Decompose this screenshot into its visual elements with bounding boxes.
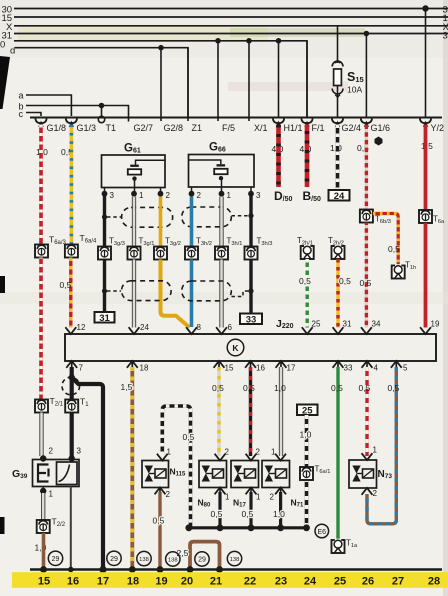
svg-text:0,5: 0,5 [243, 383, 255, 393]
wire red/yellow branch T6b/3 to T1h [373, 214, 398, 266]
connector T2/1 [35, 400, 48, 413]
svg-text:F/1: F/1 [312, 123, 325, 133]
svg-text:a: a [19, 91, 24, 101]
ground reference box 31 [95, 312, 115, 323]
wire G2/4 black/white 1.0 to box 24 [336, 125, 340, 191]
connector T6af [419, 210, 432, 223]
svg-text:17: 17 [97, 576, 109, 588]
svg-text:4: 4 [374, 364, 379, 373]
G39 pin 3 node [69, 455, 75, 461]
svg-text:0,5: 0,5 [211, 509, 223, 519]
svg-text:1: 1 [227, 191, 232, 200]
svg-text:Z1: Z1 [192, 123, 203, 133]
svg-text:18: 18 [140, 364, 149, 373]
rail node track16 [68, 567, 74, 573]
rail node track17 [99, 566, 106, 573]
left margin mark 3 [0, 517, 5, 534]
terminal H1/1 socket [273, 119, 284, 124]
harness junction dashed circle [62, 377, 80, 395]
N115 pin 1 arrow [157, 454, 168, 461]
connector T6a/4 [65, 245, 78, 258]
terminal G1/6 socket [361, 119, 372, 124]
svg-text:1: 1 [139, 191, 144, 200]
wire pin16 black/red to N17 pin2 [249, 367, 252, 456]
svg-text:2: 2 [225, 448, 230, 457]
screen stub dashed G61 lower [107, 290, 121, 292]
J220 pin 17 arrow [276, 361, 287, 368]
svg-text:1: 1 [271, 448, 276, 457]
bus node left [185, 524, 192, 531]
svg-text:10A: 10A [347, 85, 362, 95]
T1 open circle terminal [98, 116, 104, 122]
svg-text:E6: E6 [318, 529, 327, 536]
svg-text:1,0: 1,0 [274, 383, 286, 393]
svg-text:0,5: 0,5 [183, 432, 195, 442]
terminal G2/4 socket [332, 119, 343, 124]
wire black/white loop to N115 pin1 [162, 406, 190, 528]
svg-text:K: K [232, 343, 239, 353]
svg-text:F/5: F/5 [222, 123, 235, 133]
ground reference box 33 [240, 314, 262, 325]
injector N71 box [262, 461, 290, 488]
svg-text:0,5: 0,5 [153, 516, 165, 526]
svg-text:8: 8 [197, 323, 202, 332]
svg-text:3: 3 [256, 191, 261, 200]
interconnect line d [15, 48, 188, 118]
knock sensor G66 [189, 155, 255, 194]
N73 valve symbol [352, 466, 360, 474]
wire red/white T6a/3 to T2/1 [39, 258, 43, 400]
valve return bus wire [189, 526, 307, 529]
shield G66 upper (dashed) [182, 207, 232, 227]
svg-text:28: 28 [428, 576, 440, 588]
connector T6a/1 [300, 467, 313, 480]
svg-text:G2/4: G2/4 [342, 123, 362, 133]
svg-text:2,5: 2,5 [177, 548, 189, 558]
wire white T3g/1 to pin24 [133, 260, 136, 328]
svg-text:3: 3 [77, 447, 82, 456]
J220 pin 16 arrow [245, 361, 256, 368]
svg-text:27: 27 [392, 576, 404, 588]
G39 heater element symbol [38, 465, 49, 482]
wire black N17 to bus [249, 492, 252, 528]
svg-text:16: 16 [67, 576, 79, 588]
N17 pin 2 arrow top [246, 454, 257, 461]
svg-text:29: 29 [110, 556, 118, 563]
svg-text:G1/3: G1/3 [77, 123, 97, 133]
G66 pin stubs [191, 187, 193, 194]
valve N115 box [142, 461, 169, 488]
J220 pin 5 arrow [391, 361, 402, 368]
svg-text:0,5: 0,5 [388, 244, 400, 254]
G39 pin 1 node [42, 487, 44, 493]
svg-text:24: 24 [334, 191, 345, 202]
ground ref circle 29 track15 [48, 551, 62, 565]
terminal strip line [30, 117, 442, 119]
J220 pin 15 arrow [214, 361, 225, 368]
wire white T2/1 to G39 pin 2 [40, 413, 43, 457]
J220 pin 4 arrow [362, 361, 373, 368]
svg-text:2: 2 [270, 493, 275, 502]
wire drop G2/4 from bus X to fuse [337, 26, 339, 63]
G61 pin 1 node [131, 191, 137, 197]
svg-text:29: 29 [198, 557, 206, 564]
continuation reference box 24 [329, 190, 350, 201]
svg-text:16: 16 [256, 364, 265, 373]
node pin7 branch [69, 374, 75, 380]
svg-text:T1: T1 [106, 123, 117, 133]
svg-text:24: 24 [140, 323, 149, 332]
wire G61 pin2 yellow [159, 197, 163, 247]
J220 pin 7 arrow [66, 361, 77, 368]
svg-text:15: 15 [38, 576, 50, 588]
bottom rail line [30, 568, 442, 570]
svg-text:34: 34 [372, 320, 381, 329]
svg-text:X/1: X/1 [254, 123, 268, 133]
svg-text:2: 2 [256, 448, 261, 457]
svg-text:0,5: 0,5 [339, 276, 351, 286]
screen node G66 upper [248, 213, 253, 218]
N73 pin 1 arrow [362, 453, 373, 460]
ground ref circle 29 track20 [195, 552, 209, 566]
connector T6b/3 [360, 210, 373, 223]
J220 pin 6 arrow [216, 327, 227, 334]
wire pin33 green to T1a [336, 367, 339, 540]
wire drop X/1 from line o [246, 38, 252, 44]
svg-text:31: 31 [343, 320, 352, 329]
svg-text:0,5: 0,5 [359, 383, 371, 393]
J220 pin 24 arrow [129, 327, 140, 334]
bus node N71 [277, 524, 284, 531]
connector T6a/3 [35, 245, 48, 258]
wire red/yellow T6a/4 to J220 pin 12 [69, 258, 72, 328]
G66 pin 1 node [219, 191, 225, 197]
svg-text:7: 7 [79, 364, 84, 373]
wire F/1 red/black 4.0 to B/50 [305, 125, 310, 188]
svg-text:2: 2 [166, 490, 171, 499]
wire drop Z1 (corner of line d) [187, 48, 189, 121]
svg-text:21: 21 [210, 576, 222, 588]
wire G1/8 red/white 1.0 upper [39, 125, 43, 245]
connector T2/2 [37, 520, 50, 533]
svg-text:H1/1: H1/1 [284, 123, 303, 133]
N71 pin 1 arrow top [275, 454, 286, 461]
G66 pin 3 node [248, 191, 254, 197]
svg-text:20: 20 [181, 576, 193, 588]
lambda probe G39 box [33, 460, 80, 487]
wire G61 pin1 white [133, 197, 136, 247]
svg-text:22: 22 [244, 576, 256, 588]
fuse S15 [332, 61, 343, 118]
svg-text:138: 138 [168, 558, 178, 564]
svg-text:0,5: 0,5 [299, 276, 311, 286]
svg-text:G2/7: G2/7 [134, 123, 154, 133]
svg-text:1,5: 1,5 [121, 382, 133, 392]
wire drop Y/2 from bus 30 [422, 5, 428, 11]
svg-text:6: 6 [228, 323, 233, 332]
wire pin5 brown/blue to N73 pin2 [367, 367, 396, 524]
connector T2h/1 [301, 246, 314, 259]
brown hairpin track20-track21 [190, 542, 220, 570]
knock sensor G61 [102, 155, 166, 194]
bus node N17 [248, 524, 255, 531]
N115 valve symbol [145, 466, 154, 474]
svg-text:23: 23 [275, 576, 287, 588]
connector T2h/2 [332, 246, 345, 259]
J220 pin 18 arrow [127, 361, 138, 368]
svg-text:1,0: 1,0 [300, 430, 312, 440]
wire yellow T3g/2 elbow to pin8 [161, 260, 190, 328]
wire grey T3h/1 to pin6 [220, 260, 223, 328]
injector N17 box [231, 461, 259, 488]
wire pin17 white to N71 pin1 [280, 367, 283, 456]
wire pin4 red/white to N73 pin1 [365, 367, 368, 456]
wire red/grey T6b/3 to pin34 [365, 223, 368, 328]
wire black N80 to bus [218, 492, 221, 528]
wire drop G2/8 from line d [158, 45, 164, 51]
bus node right [303, 524, 310, 531]
wire G1/3 yellow/blue 0.5 [70, 125, 74, 245]
svg-text:0,5: 0,5 [242, 509, 254, 519]
svg-text:c: c [19, 109, 24, 119]
N71 pin 2 arrow bottom [275, 488, 286, 495]
svg-text:1: 1 [167, 448, 172, 457]
G61 pin 2 node [158, 191, 164, 197]
wire drop F/5 from line o [215, 38, 221, 44]
ground point E6 [315, 524, 329, 538]
svg-text:0,5: 0,5 [388, 383, 400, 393]
connector T3h/2 [185, 247, 198, 260]
svg-text:2: 2 [166, 191, 171, 200]
J220 pin 34 arrow [361, 327, 372, 334]
scan background tints [0, 0, 448, 58]
wire yellow/red T2h/2 to pin31 [336, 259, 339, 328]
terminal Y/2 socket [420, 119, 431, 124]
screen stub dashed G66 lower [232, 291, 249, 297]
svg-text:19: 19 [155, 576, 167, 588]
N115 pin 2 arrow [155, 488, 166, 495]
connector T3g/3 [98, 247, 111, 260]
wire black T1 to G39 pin 3 [70, 413, 74, 459]
rail node track15 [40, 566, 47, 573]
svg-text:138: 138 [139, 557, 149, 563]
G66 pin 2 node [189, 191, 195, 197]
track number bar [12, 572, 448, 588]
ground ref circle 138 track18 [137, 551, 151, 565]
screen stub dashed G61 upper [107, 216, 121, 218]
terminal F/1 socket [301, 119, 312, 124]
svg-text:19: 19 [431, 320, 440, 329]
wire drop F/1 (corner of line o) [306, 41, 308, 118]
connector T1h [392, 266, 405, 279]
svg-text:Y/2: Y/2 [431, 123, 445, 133]
svg-text:G1/6: G1/6 [371, 123, 391, 133]
wire H1/1 red/black 4.0 to D/50 [276, 125, 281, 188]
wire green/white T2h/1 to pin25 [306, 259, 309, 328]
svg-text:138: 138 [230, 557, 240, 563]
connector T3g/1 [128, 247, 141, 260]
screen stub dashed G66 upper [232, 215, 249, 217]
bus bar X [14, 25, 448, 27]
svg-text:12: 12 [77, 323, 86, 332]
bus bar 31 [14, 33, 448, 35]
svg-text:18: 18 [127, 576, 139, 588]
node T1 drop from line b [99, 103, 105, 109]
wire G39 sensor earth to track 16 [70, 487, 72, 570]
injector N80 box [199, 461, 227, 488]
svg-text:17: 17 [287, 364, 296, 373]
connector T3h/1 [215, 247, 228, 260]
svg-text:1: 1 [49, 490, 54, 499]
G39 probe cell symbol [57, 462, 78, 485]
svg-text:0,5: 0,5 [331, 383, 343, 393]
N80 pin 1 arrow bottom [215, 488, 226, 495]
svg-text:25: 25 [334, 576, 346, 588]
connector T3h/3 [245, 247, 258, 260]
interconnect line o [14, 41, 307, 118]
rail node track19 [157, 566, 164, 573]
shield G61 upper (dashed) [122, 207, 173, 227]
J220 pin 31 arrow [333, 327, 344, 334]
wire brown N115 pin2 to track 19 [158, 492, 161, 570]
wire G1/6 red/grey 0.5 [365, 125, 368, 210]
shield G66 lower (dashed) [182, 281, 232, 301]
svg-text:5: 5 [403, 364, 408, 373]
terminal G1/8 socket [35, 119, 46, 124]
rail node track21 [216, 566, 223, 573]
ECU J220 box [65, 334, 436, 361]
svg-text:1: 1 [225, 493, 230, 502]
svg-text:G2/8: G2/8 [164, 123, 184, 133]
rail node track18 [129, 566, 136, 573]
svg-text:26: 26 [362, 576, 374, 588]
svg-text:1: 1 [256, 493, 261, 502]
G61 pin stubs [104, 188, 106, 194]
wire branch to track 17 (thick black) [72, 378, 103, 570]
wire drop H1/1 from line o [276, 38, 282, 44]
connector T1 [65, 400, 78, 413]
continuation reference box 25 [297, 405, 318, 416]
terminal G2/7 tick [128, 118, 130, 122]
left margin wedge mark [0, 56, 10, 109]
wire black N71 to bus [279, 492, 282, 528]
svg-text:15: 15 [225, 364, 234, 373]
valve N73 box [349, 460, 377, 488]
svg-text:33: 33 [246, 314, 257, 325]
ground ref circle 29 track17 [107, 551, 121, 565]
svg-text:3: 3 [443, 31, 448, 42]
wire G66 pin1 grey [220, 197, 223, 247]
svg-text:d: d [10, 46, 15, 57]
J220 internal K circle [227, 339, 244, 356]
svg-text:29: 29 [52, 556, 60, 563]
bus bar 30 [14, 8, 448, 10]
ground ref circle 138 track19 [166, 552, 180, 566]
terminal G1/3 socket [66, 119, 77, 124]
svg-text:25: 25 [302, 405, 313, 416]
svg-text:2: 2 [49, 447, 54, 456]
bus node N80 [217, 524, 224, 531]
J220 pin 8 arrow [186, 327, 197, 334]
wire G66 pin3 black screen [249, 194, 252, 314]
left margin mark 2 [0, 276, 5, 293]
wire pin15 grey/yellow to N80 pin2 [217, 367, 220, 456]
svg-text:0: 0 [0, 40, 5, 51]
svg-text:3: 3 [110, 191, 115, 200]
svg-text:0,5: 0,5 [60, 280, 72, 290]
svg-text:0,5: 0,5 [212, 383, 224, 393]
wire drop G1/6 from bus 31 [364, 31, 370, 37]
J220 pin 12 arrow [65, 327, 76, 334]
screen node G61 upper [102, 214, 107, 219]
svg-text:24: 24 [304, 576, 317, 588]
N73 pin 2 arrow [362, 488, 373, 495]
screen node G61 lower [102, 288, 107, 293]
wire black/white box25 to bus [305, 415, 309, 528]
svg-text:G1/8: G1/8 [47, 123, 67, 133]
interconnect line c [26, 113, 41, 117]
J220 pin 33 arrow [333, 361, 344, 368]
G39 pin 2 node [40, 455, 46, 461]
svg-text:2: 2 [373, 489, 378, 498]
interconnect line b [26, 106, 129, 118]
interconnect line a [26, 95, 71, 116]
N80 pin 2 arrow top [215, 454, 226, 461]
svg-text:2: 2 [197, 191, 202, 200]
wire G61 pin3 black screen [103, 194, 106, 312]
J220 pin 19 arrow [420, 327, 431, 334]
bus bar 15 [14, 16, 448, 18]
svg-text:25: 25 [312, 320, 321, 329]
wire brown T2/2 to track 15 [42, 533, 46, 570]
wire blue T3h/2 to pin8 [190, 260, 194, 328]
shield G61 lower (dashed) [122, 281, 172, 301]
ground ref circle 138 track21 [227, 551, 241, 565]
wire white G39 pin1 to T2/2 [42, 493, 45, 520]
wire pin7 black to node [70, 367, 74, 400]
G61 pin 3 node [102, 191, 108, 197]
rail node track20 [187, 566, 194, 573]
screen node G66 lower [248, 288, 253, 293]
svg-text:33: 33 [344, 364, 353, 373]
wire G66 pin2 blue [190, 197, 194, 247]
wire Y/2 red 1.5 [424, 125, 428, 211]
J220 pin 25 arrow [302, 327, 313, 334]
svg-text:31: 31 [99, 313, 110, 324]
shield hexagon mark at G1/6 [375, 137, 383, 146]
svg-text:1: 1 [373, 446, 378, 455]
wire red T6af to pin19 [424, 223, 428, 328]
N17 pin 1 arrow bottom [246, 488, 257, 495]
connector T3g/2 [154, 247, 167, 260]
wire pin18 brown/yellow 1.5 to track 18 [130, 367, 134, 570]
connector T1a [332, 540, 345, 553]
svg-text:0,5: 0,5 [360, 278, 372, 288]
svg-text:1,0: 1,0 [273, 509, 285, 519]
